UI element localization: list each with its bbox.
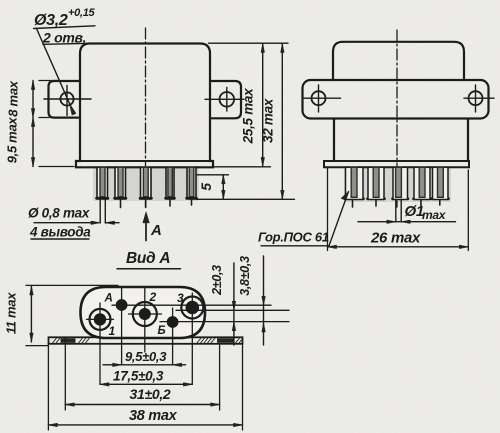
svg-text:38 max: 38 max bbox=[129, 408, 178, 424]
svg-text:Ø1: Ø1 bbox=[405, 203, 424, 220]
svg-text:2±0,3: 2±0,3 bbox=[210, 265, 224, 296]
svg-text:A: A bbox=[150, 222, 162, 239]
svg-text:2: 2 bbox=[149, 290, 157, 304]
svg-text:4 вывода: 4 вывода bbox=[29, 225, 91, 240]
svg-text:17,5±0,3: 17,5±0,3 bbox=[113, 369, 164, 384]
svg-text:9,5±0,3: 9,5±0,3 bbox=[125, 349, 167, 364]
svg-text:1: 1 bbox=[109, 324, 116, 338]
svg-text:8 max: 8 max bbox=[6, 80, 21, 116]
svg-text:max: max bbox=[422, 208, 447, 222]
svg-text:3: 3 bbox=[177, 291, 184, 305]
svg-text:Ø3,2: Ø3,2 bbox=[34, 12, 68, 29]
svg-text:32 max: 32 max bbox=[261, 98, 276, 143]
svg-text:26 max: 26 max bbox=[370, 230, 421, 247]
svg-text:31±0,2: 31±0,2 bbox=[130, 386, 171, 402]
svg-text:5: 5 bbox=[198, 183, 214, 191]
svg-text:A: A bbox=[104, 293, 113, 305]
svg-text:11 max: 11 max bbox=[4, 292, 19, 334]
svg-text:25,5 max: 25,5 max bbox=[241, 88, 256, 144]
svg-text:Гор.ПОС 61: Гор.ПОС 61 bbox=[258, 230, 329, 245]
svg-text:9,5 max: 9,5 max bbox=[5, 117, 20, 164]
svg-text:2 отв.: 2 отв. bbox=[42, 29, 86, 45]
svg-text:Вид А: Вид А bbox=[126, 250, 170, 267]
svg-text:Ø 0,8 max: Ø 0,8 max bbox=[28, 206, 90, 221]
svg-text:+0,15: +0,15 bbox=[68, 7, 96, 19]
svg-text:3,8±0,3: 3,8±0,3 bbox=[238, 256, 252, 296]
svg-text:Б: Б bbox=[158, 325, 166, 337]
